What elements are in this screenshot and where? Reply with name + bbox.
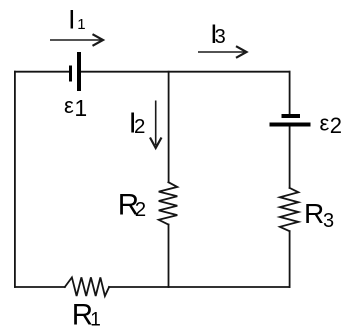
- svg-text:1: 1: [90, 310, 101, 331]
- svg-text:1: 1: [74, 95, 87, 121]
- svg-text:ε: ε: [320, 110, 330, 135]
- svg-text:R: R: [304, 198, 324, 229]
- svg-text:I: I: [68, 5, 75, 35]
- svg-text:3: 3: [215, 26, 226, 48]
- svg-text:3: 3: [323, 210, 334, 232]
- svg-text:1: 1: [77, 16, 85, 33]
- svg-text:ε: ε: [64, 93, 74, 118]
- svg-text:2: 2: [135, 198, 146, 221]
- svg-text:2: 2: [330, 113, 342, 138]
- svg-text:2: 2: [134, 115, 145, 138]
